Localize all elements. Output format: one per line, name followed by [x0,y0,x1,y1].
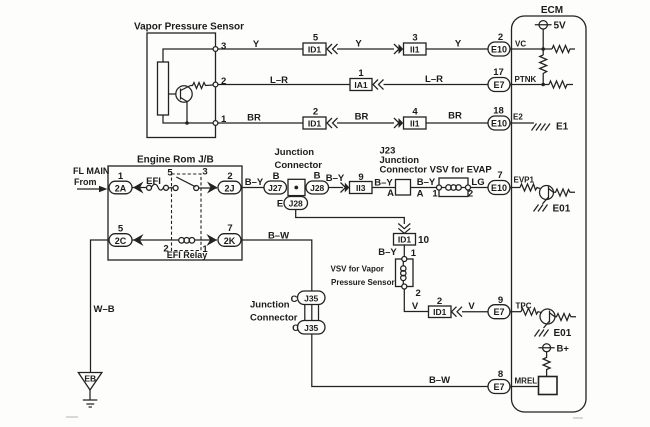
wire 2C to relay coil [132,239,179,241]
VSV for Vapor Pressure Sensor label [331,265,395,288]
svg-text:B: B [314,171,321,182]
chevrons after ID1 row1 [327,44,338,54]
connector IA1 pin 1 [350,68,372,91]
wire VSV pin2 to ID1 (V) [404,289,428,312]
svg-text:ECM: ECM [541,5,563,16]
svg-text:Connector: Connector [250,313,298,324]
svg-text:ID1: ID1 [308,45,322,55]
svg-text:VSV for Vapor: VSV for Vapor [331,265,384,274]
svg-text:2: 2 [313,107,318,118]
svg-text:2: 2 [221,76,226,87]
svg-text:3: 3 [221,41,226,52]
node VC [541,47,545,51]
svg-text:Y: Y [455,39,462,50]
svg-text:5: 5 [313,33,319,44]
svg-text:FL MAIN: FL MAIN [73,166,109,176]
svg-text:W–B: W–B [94,304,115,315]
svg-text:EVP1: EVP1 [514,176,535,185]
resistor R-TPC [521,308,542,315]
svg-text:E7: E7 [493,80,504,90]
svg-text:2C: 2C [115,236,127,246]
wire E7 to ECM PTNK [510,75,549,85]
svg-text:EFI: EFI [146,176,161,187]
svg-text:Pressure Sensor: Pressure Sensor [331,278,395,287]
svg-text:A: A [417,189,424,200]
svg-text:BR: BR [247,113,261,124]
connector II1 pin 3 [404,33,427,56]
svg-text:1: 1 [202,244,208,255]
svg-text:Vapor Pressure Sensor: Vapor Pressure Sensor [134,22,244,33]
connector II3 pin 9 [350,172,373,194]
svg-text:E7: E7 [493,307,504,317]
svg-text:ID1: ID1 [398,235,412,245]
svg-text:3: 3 [202,167,207,178]
wire II3 to J23 (B-Y, pin A) [372,178,396,200]
wire ID1 to II1 (Y) [337,39,394,50]
svg-text:Junction: Junction [250,300,290,311]
svg-text:9: 9 [498,295,503,306]
resistor R-sensor (collector to pin2) [191,83,214,89]
svg-text:7: 7 [497,170,502,181]
svg-text:Connector VSV for EVAP: Connector VSV for EVAP [380,165,493,176]
svg-text:MREL: MREL [515,377,538,386]
svg-text:8: 8 [498,369,503,380]
svg-text:II1: II1 [410,119,420,129]
svg-text:5: 5 [167,168,173,179]
wire pin2 to IA1 (L-R) [218,75,350,86]
resistor R-MREL [543,352,550,377]
wire sensor bottom to pin 1 [163,115,213,123]
wire pin3 to ID1 (Y) [218,39,303,50]
svg-text:E10: E10 [491,45,507,55]
pin 3 [213,41,226,52]
svg-text:E10: E10 [491,183,507,193]
Engine Room J/B box [108,155,242,261]
svg-text:B–Y: B–Y [245,177,264,188]
wire J35 to MREL (B-W) [312,334,488,387]
svg-text:2A: 2A [115,184,127,194]
connector ID1 pin 2 [303,107,326,130]
wire 2J to J27 (B-Y) [241,177,264,188]
ECM box U-ECM [512,5,587,412]
svg-text:V: V [412,301,419,312]
wire ID1 to VSV pin1 (B-Y) [378,245,417,259]
svg-text:B: B [273,171,280,182]
connector II1 pin 4 [404,107,427,130]
wire E10 to ECM VC [510,40,552,50]
arrow (bus bar) at 2C [133,234,144,246]
svg-text:Y: Y [355,39,362,50]
resistor R-EVP1 [520,184,540,191]
resistor R-divider (VC to PTNK) [540,55,547,85]
resistor R-VC [552,46,575,53]
Junction Connector label (J35) [250,300,298,324]
transistor Q-EVP1 [540,186,554,204]
svg-text:B–Y: B–Y [326,173,345,184]
svg-text:B–Y: B–Y [417,177,436,188]
svg-text:J35: J35 [304,294,318,304]
chevrons down into ID1 [398,224,410,234]
svg-text:IA1: IA1 [354,80,368,90]
fuse EFI [146,176,168,190]
svg-text:5: 5 [118,224,124,235]
wire 2A to fuse [132,187,147,189]
chevrons after ID1 (TPC) [452,307,463,317]
svg-text:1: 1 [118,171,124,182]
svg-text:II3: II3 [356,183,366,193]
svg-text:17: 17 [493,67,504,78]
svg-text:ID1: ID1 [433,307,447,317]
arrow (bus bar) at 2A [133,182,144,194]
junction dot [294,186,298,190]
chevron into II3 [341,183,350,193]
wire 5V rail down to PTNK node [542,29,544,55]
wire J23 to VSV pin1 (B-Y, pin A) [411,177,439,200]
connector 2K pin 7 [218,223,241,246]
svg-text:J35: J35 [304,323,318,333]
node PTNK [541,83,545,87]
chevrons after IA1 [373,80,384,90]
faint scan marks [66,416,583,419]
svg-text:1: 1 [411,248,417,259]
connector E7 pin 9 (TPC) [488,295,510,319]
junction connector J23 block [396,180,411,196]
connector E7 pin 8 (MREL) [488,369,510,394]
J23 label block [380,146,493,176]
ground EB triangle [78,373,102,391]
connector J28 (E) below [277,197,308,210]
svg-text:PTNK: PTNK [515,75,537,84]
5V supply symbol [535,21,566,32]
ground E1 (hatch) [532,122,569,133]
svg-text:From: From [74,177,97,187]
junction dot at emitter/bottom wire [185,121,189,125]
wire coil to 2K [195,239,217,241]
svg-text:B+: B+ [557,344,570,355]
svg-text:2: 2 [498,32,503,43]
svg-text:9: 9 [358,172,363,183]
MREL relay box inside ECM [539,377,558,395]
svg-text:L–R: L–R [270,75,288,86]
wire ID1 to II1 (BR) [337,112,394,124]
svg-text:Engine Rom J/B: Engine Rom J/B [137,155,214,166]
svg-text:C: C [291,294,298,305]
wire FL MAIN arrow into 2A [77,186,108,192]
relay pin 3 [202,167,207,178]
svg-text:V: V [468,301,475,312]
pin 1 [213,114,227,125]
svg-text:J28: J28 [289,199,303,209]
relay pin 2 [163,244,168,255]
connector 2A pin 1 [109,171,132,194]
connector ID1 pin 2 (TPC) [429,296,452,318]
svg-text:10: 10 [418,235,430,246]
wire II1 to E10 (Y) [426,39,488,50]
ground earth symbol [83,390,98,407]
svg-text:1: 1 [358,68,364,79]
svg-text:E1: E1 [556,122,569,133]
svg-text:E7: E7 [493,382,504,392]
svg-text:E01: E01 [553,204,571,215]
svg-text:E2: E2 [513,113,523,122]
wire 2K to J35 (B-W) [241,231,312,292]
wire 2C to ground (W-B) [91,240,115,372]
svg-text:B–W: B–W [429,375,450,386]
transistor Q-sensor [169,86,193,124]
svg-text:3: 3 [412,33,417,44]
VSV for Vapor Pressure Sensor coil [396,257,421,300]
connector ID1 pin 10 [394,234,430,247]
svg-text:ID1: ID1 [308,119,322,129]
connector J35 (C) upper [291,291,325,305]
ground E01 (EVP1) [534,204,571,215]
wire VSV to E10 (LG) [471,177,489,188]
svg-text:2: 2 [437,296,442,307]
wire J28E branch down to ID1 [296,210,405,225]
connector 2J pin 2 [218,171,241,194]
pin 2 [213,76,226,87]
connector E10 pin 18 (E2) [488,106,510,131]
wire E10 into ECM E2 [510,113,534,124]
chevron into II1 row1 [394,44,403,54]
Junction Connector label (J27/J28) [275,147,323,171]
svg-text:A: A [387,188,394,199]
connector J28 (B) [306,171,329,195]
svg-text:E: E [277,199,283,210]
svg-text:2: 2 [416,288,421,299]
svg-text:2: 2 [468,189,473,200]
B+ symbol [539,344,570,355]
relay pin 1 [202,244,208,255]
resistor R-TPCb [555,314,576,321]
FL MAIN feed label [73,166,109,187]
junction block square [288,179,305,195]
svg-text:7: 7 [227,223,232,234]
wire pin1 to ID1 (BR) [218,113,303,124]
svg-text:E10: E10 [491,119,507,129]
svg-text:B–W: B–W [268,231,289,242]
wire sensor top to pin 3 [163,49,213,62]
svg-text:VC: VC [515,40,526,49]
transistor Q-TPC [540,309,555,328]
svg-text:L–R: L–R [425,74,443,85]
connector E7 pin 17 (PTNK) [488,67,510,92]
wire J28 to II3 (B-Y) [326,173,345,188]
sensor element (piezo rect) [158,62,169,115]
svg-text:II1: II1 [410,45,420,55]
connector J35 (C) lower [292,321,325,335]
wire IA1 to E7 (L-R) [384,74,489,85]
Vapor Pressure Sensor box [134,22,244,138]
VSV for EVAP coil [437,178,474,200]
svg-text:2: 2 [163,244,168,255]
connector J27 (B) [264,171,287,194]
relay pin 5 [167,168,173,179]
connector E10 pin 2 (VC) [488,32,510,56]
svg-text:B–Y: B–Y [374,178,393,189]
wire E7 into ECM MREL [510,377,539,387]
svg-text:Y: Y [253,39,260,50]
link between J35 halves [305,305,319,321]
connector ID1 pin 5 [303,33,326,56]
wire switch to 2J [199,187,217,189]
svg-text:EB: EB [84,374,96,384]
wire E10 into ECM EVP1 [510,176,535,188]
svg-text:4: 4 [412,107,418,118]
chevron into II1 row3 [394,118,403,128]
svg-text:BR: BR [355,112,369,123]
resistor R-PTNK [549,81,573,88]
svg-text:2K: 2K [224,236,236,246]
connector E10 pin 7 (EVP1) [488,170,510,195]
svg-text:5V: 5V [554,21,567,32]
svg-text:2: 2 [227,171,232,182]
arrow (bus bar) at 2J [207,182,218,194]
wire E7 into ECM TPC [510,302,532,312]
ground E01 (TPC) [535,328,572,339]
wire fuse to switch [169,187,174,189]
svg-text:E01: E01 [554,328,572,339]
arrow (bus bar) at 2K [207,234,218,246]
relay box (dashed) EFI Relay [167,174,208,260]
svg-text:Connector: Connector [275,160,323,171]
svg-text:18: 18 [493,106,504,117]
resistor R-EVP1b [553,189,575,196]
chevrons after ID1 row3 [327,118,338,128]
svg-text:J28: J28 [310,183,324,193]
svg-text:B–Y: B–Y [378,247,397,258]
svg-text:Junction: Junction [275,147,315,158]
svg-text:EFI Relay: EFI Relay [167,250,208,260]
wire ID1 to E7 (V) [462,301,488,312]
connector 2C pin 5 [109,224,132,247]
wire II1 to E10 (BR) [426,111,488,124]
svg-text:LG: LG [471,177,484,188]
svg-text:C: C [292,323,299,334]
svg-text:2J: 2J [224,184,234,194]
svg-text:J27: J27 [268,183,282,193]
relay coil L-EFI [179,238,195,244]
relay switch contacts [173,177,199,191]
svg-text:BR: BR [448,111,462,122]
